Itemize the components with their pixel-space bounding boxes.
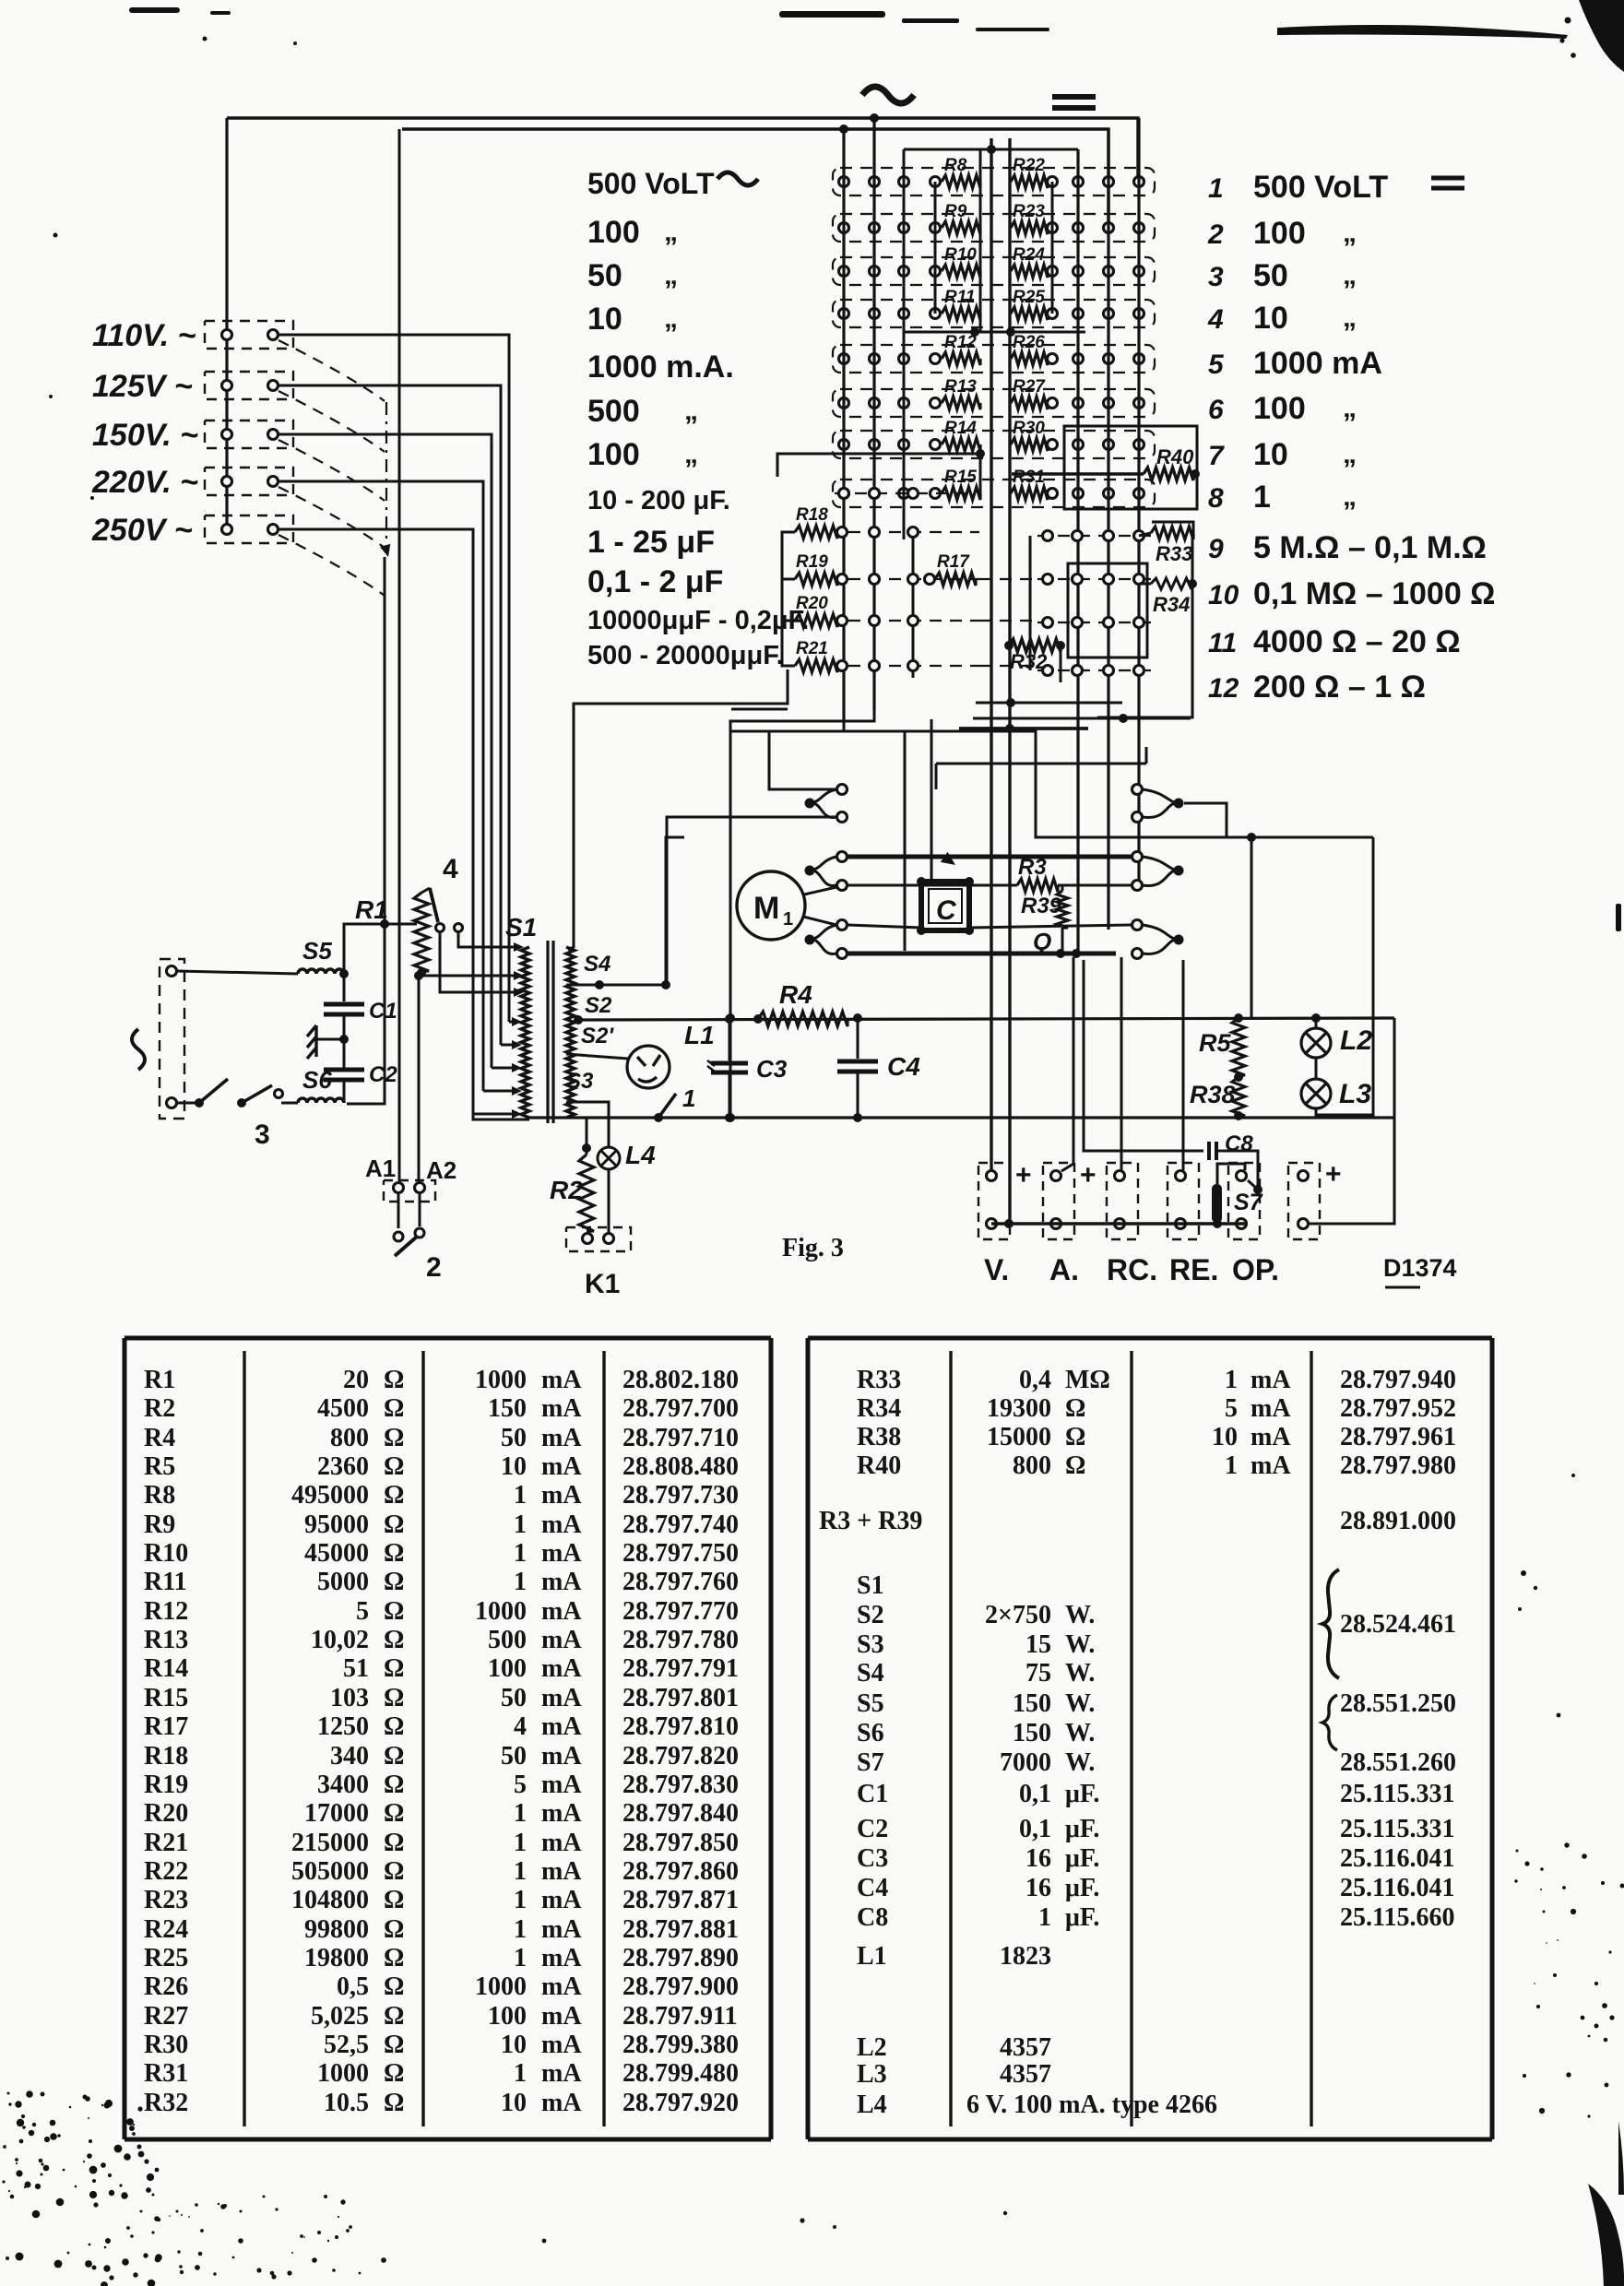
svg-text:28.797.840: 28.797.840 xyxy=(622,1799,739,1828)
svg-text:1: 1 xyxy=(1253,480,1271,515)
resistor R22 xyxy=(1011,175,1048,188)
svg-text:S3: S3 xyxy=(857,1630,884,1659)
resistor R24 xyxy=(1011,265,1048,278)
svg-text:10: 10 xyxy=(1212,1423,1238,1451)
svg-text:A1: A1 xyxy=(365,1155,396,1182)
wire selector dashed link 3 xyxy=(279,440,385,501)
svg-text:R34: R34 xyxy=(857,1394,901,1423)
svg-text:Ω: Ω xyxy=(1065,1394,1085,1423)
svg-text:1: 1 xyxy=(1225,1366,1238,1394)
svg-text:16: 16 xyxy=(1025,1844,1051,1873)
svg-text:50: 50 xyxy=(501,1424,527,1452)
svg-text:S2: S2 xyxy=(585,993,612,1018)
table frame left xyxy=(124,1338,771,2139)
wire collector B xyxy=(843,721,846,731)
svg-text:mA: mA xyxy=(541,1799,582,1828)
svg-text:„: „ xyxy=(664,260,678,290)
svg-text:15: 15 xyxy=(1025,1630,1051,1659)
svg-text:5: 5 xyxy=(356,1597,369,1626)
wire contact row 1034 heavy xyxy=(848,952,1116,956)
wire matrix column C xyxy=(903,149,906,539)
svg-text:W.: W. xyxy=(1065,1719,1095,1747)
svg-text:50: 50 xyxy=(501,1742,527,1771)
svg-text:Ω: Ω xyxy=(384,1394,404,1423)
svg-text:R5: R5 xyxy=(1199,1029,1231,1057)
svg-text:10.5: 10.5 xyxy=(324,2089,369,2117)
svg-text:Ω: Ω xyxy=(384,2002,404,2031)
svg-text:Ω: Ω xyxy=(384,1539,404,1568)
resistor R25 xyxy=(1011,307,1048,320)
svg-text:1: 1 xyxy=(514,1915,527,1944)
svg-text:28.797.760: 28.797.760 xyxy=(622,1568,739,1596)
switch row 2 xyxy=(833,214,1155,242)
wire block top xyxy=(730,731,1373,837)
svg-text:R14: R14 xyxy=(144,1654,188,1683)
svg-text:R9: R9 xyxy=(144,1510,175,1539)
svg-text:10000μμF - 0,2μF.: 10000μμF - 0,2μF. xyxy=(587,606,809,635)
resistor R8 xyxy=(931,177,941,187)
svg-text:R1: R1 xyxy=(355,895,388,924)
svg-text:Fig. 3: Fig. 3 xyxy=(782,1234,844,1262)
svg-text:500: 500 xyxy=(488,1626,527,1654)
svg-text:„: „ xyxy=(1343,481,1357,512)
switch row R19 xyxy=(848,578,979,580)
svg-text:mA: mA xyxy=(541,1829,582,1857)
svg-text:28.797.881: 28.797.881 xyxy=(622,1915,739,1944)
wire collector G heavy xyxy=(959,727,1088,730)
resistor R27 xyxy=(1011,397,1048,409)
svg-text:28.797.860: 28.797.860 xyxy=(622,1857,739,1886)
svg-text:Ω: Ω xyxy=(384,1684,404,1712)
wire collector A xyxy=(730,710,874,1118)
svg-text:L3: L3 xyxy=(1339,1079,1371,1109)
node S5 out xyxy=(339,969,349,978)
svg-text:Ω: Ω xyxy=(384,1944,404,1972)
svg-text:1: 1 xyxy=(514,1799,527,1828)
svg-text:C4: C4 xyxy=(887,1052,920,1081)
switch contact pair right xyxy=(1174,866,1184,876)
svg-text:10,02: 10,02 xyxy=(311,1626,369,1654)
svg-text:S4: S4 xyxy=(584,952,610,977)
resistor R23 xyxy=(1011,221,1048,234)
table brace small xyxy=(1322,1695,1337,1750)
svg-text:9: 9 xyxy=(1208,534,1224,564)
svg-text:2: 2 xyxy=(1207,219,1224,250)
svg-text:215000: 215000 xyxy=(291,1829,369,1857)
inductor S7 xyxy=(1212,1184,1222,1223)
svg-text:340: 340 xyxy=(330,1742,369,1771)
svg-text:Ω: Ω xyxy=(384,1742,404,1771)
svg-text:Ω: Ω xyxy=(384,2031,404,2059)
svg-text:R8: R8 xyxy=(144,1481,175,1510)
svg-text:10: 10 xyxy=(1253,437,1288,472)
svg-text:Ω: Ω xyxy=(384,1915,404,1944)
switch 2 xyxy=(397,1193,400,1228)
svg-text:28.799.480: 28.799.480 xyxy=(622,2059,739,2088)
wire A link xyxy=(1061,957,1073,1171)
switch 3 xyxy=(177,1102,199,1105)
svg-text:S1: S1 xyxy=(505,913,537,942)
svg-text:mA: mA xyxy=(541,1886,582,1914)
wire tap 3 to transformer xyxy=(279,434,492,1068)
svg-text:150V. ~: 150V. ~ xyxy=(92,418,198,453)
svg-text:R24: R24 xyxy=(144,1915,188,1944)
svg-text:R27: R27 xyxy=(144,2002,188,2031)
svg-text:W.: W. xyxy=(1065,1601,1095,1629)
svg-text:R11: R11 xyxy=(944,288,975,307)
svg-text:19300: 19300 xyxy=(987,1394,1051,1423)
svg-text:500 VoLT: 500 VoLT xyxy=(1253,170,1388,205)
svg-text:C1: C1 xyxy=(369,999,397,1024)
svg-text:D1374: D1374 xyxy=(1383,1254,1457,1282)
svg-text:R14: R14 xyxy=(944,419,977,438)
svg-text:25.115.660: 25.115.660 xyxy=(1340,1903,1454,1932)
svg-text:28.797.830: 28.797.830 xyxy=(622,1771,739,1799)
resistor R13 xyxy=(931,398,941,409)
resistor R2 xyxy=(582,1143,591,1153)
label DC range list xyxy=(1207,170,1495,705)
switch row R20 xyxy=(848,620,979,622)
svg-text:1000: 1000 xyxy=(317,2059,369,2088)
svg-text:μF.: μF. xyxy=(1065,1903,1099,1932)
wire matrix column D xyxy=(1076,149,1079,957)
svg-text:28.797.730: 28.797.730 xyxy=(622,1481,739,1510)
svg-text:100: 100 xyxy=(1253,216,1306,251)
svg-text:S7: S7 xyxy=(857,1748,884,1777)
svg-text:R9: R9 xyxy=(944,202,967,221)
resistor R33 xyxy=(1151,527,1193,539)
svg-text:103: 103 xyxy=(330,1684,369,1712)
svg-text:R22: R22 xyxy=(1013,156,1045,175)
wire terminal bottom bus xyxy=(991,1222,1245,1226)
svg-text:1 - 25 μF: 1 - 25 μF xyxy=(587,525,715,560)
svg-text:11: 11 xyxy=(1208,628,1237,658)
svg-text:28.797.920: 28.797.920 xyxy=(622,2089,739,2117)
svg-text:mA: mA xyxy=(541,1712,582,1741)
svg-text:W.: W. xyxy=(1065,1689,1095,1718)
svg-text:C8: C8 xyxy=(857,1903,888,1932)
svg-text:R19: R19 xyxy=(144,1771,188,1799)
DC symbol xyxy=(1052,97,1096,108)
svg-text:R32: R32 xyxy=(144,2089,188,2117)
svg-text:28.797.850: 28.797.850 xyxy=(622,1829,739,1857)
terminal 220V. tap xyxy=(205,468,293,495)
terminal 150V. tap xyxy=(205,420,293,448)
svg-text:1: 1 xyxy=(1038,1903,1051,1932)
svg-text:28.524.461: 28.524.461 xyxy=(1340,1610,1456,1639)
svg-text:6 V. 100 mA. type 4266: 6 V. 100 mA. type 4266 xyxy=(966,2091,1217,2119)
wire main bus bottom xyxy=(529,1116,1394,1119)
svg-text:25.116.041: 25.116.041 xyxy=(1340,1844,1454,1873)
wire matrix right res bus xyxy=(1051,182,1054,314)
svg-text:8: 8 xyxy=(1208,483,1224,514)
wire R5 riser xyxy=(1251,837,1253,1018)
svg-text:50: 50 xyxy=(501,1684,527,1712)
svg-text:0,1: 0,1 xyxy=(1019,1780,1051,1808)
svg-text:μF.: μF. xyxy=(1065,1780,1099,1808)
wire R33 top link xyxy=(1152,522,1193,533)
meter M1 xyxy=(737,871,805,940)
svg-text:Ω: Ω xyxy=(384,1481,404,1510)
svg-text:mA: mA xyxy=(541,1481,582,1510)
switch contact pair left xyxy=(805,935,815,945)
svg-text:0,1: 0,1 xyxy=(1019,1815,1051,1843)
svg-text:1: 1 xyxy=(514,1568,527,1596)
wire selector common dash-dot xyxy=(385,402,387,550)
resistor R34 xyxy=(1151,578,1191,589)
terminal 110V. tap xyxy=(205,321,293,349)
svg-text:4: 4 xyxy=(443,854,458,884)
svg-text:10: 10 xyxy=(1208,580,1239,610)
switch row 4 xyxy=(833,300,1155,327)
svg-text:R26: R26 xyxy=(1013,333,1045,352)
wire ladder left bus xyxy=(782,532,795,666)
svg-text:28.802.180: 28.802.180 xyxy=(622,1366,739,1394)
switch row 6 xyxy=(833,389,1155,417)
svg-text:1: 1 xyxy=(514,1539,527,1568)
svg-text:L1: L1 xyxy=(684,1021,715,1049)
svg-text:„: „ xyxy=(684,439,698,469)
svg-text:15000: 15000 xyxy=(987,1423,1051,1451)
svg-text:28.797.740: 28.797.740 xyxy=(622,1510,739,1539)
svg-text:R20: R20 xyxy=(144,1799,188,1828)
svg-text:S3: S3 xyxy=(566,1069,594,1094)
svg-text:Ω: Ω xyxy=(384,1857,404,1886)
svg-text:L4: L4 xyxy=(625,1141,656,1169)
svg-text:C8: C8 xyxy=(1225,1131,1253,1156)
svg-text:28.797.961: 28.797.961 xyxy=(1340,1423,1456,1451)
terminal 250V tap xyxy=(205,515,293,543)
terminal A1 A2 xyxy=(384,1180,435,1202)
svg-text:mA: mA xyxy=(541,1915,582,1944)
resistor R40 xyxy=(1064,426,1197,509)
wire S5 to R1 xyxy=(344,924,417,974)
svg-text:+: + xyxy=(1080,1160,1096,1190)
resistor R14 xyxy=(931,440,941,450)
node selector arrow xyxy=(380,544,390,557)
svg-text:μF.: μF. xyxy=(1065,1815,1099,1843)
svg-text:2×750: 2×750 xyxy=(985,1601,1051,1629)
wire S6 to R1 riser xyxy=(347,557,385,1104)
switch row 3 xyxy=(833,257,1155,285)
svg-text:mA: mA xyxy=(541,1539,582,1568)
wire matrix connector top xyxy=(904,148,1078,151)
svg-text:R33: R33 xyxy=(857,1366,901,1394)
svg-text:mA: mA xyxy=(1251,1366,1291,1394)
svg-text:R30: R30 xyxy=(1013,419,1045,438)
wire matrix left res bus xyxy=(934,182,937,314)
svg-text:104800: 104800 xyxy=(291,1886,369,1914)
wire RC drop xyxy=(1120,957,1123,1170)
AC symbol xyxy=(862,87,914,103)
svg-text:10: 10 xyxy=(501,2089,527,2117)
svg-text:+: + xyxy=(1015,1160,1032,1190)
svg-text:500 - 20000μμF.: 500 - 20000μμF. xyxy=(587,641,784,670)
switch row center 4 xyxy=(1037,669,1153,671)
svg-text:L2: L2 xyxy=(1340,1025,1372,1056)
svg-text:5: 5 xyxy=(514,1771,527,1799)
switch row 5 xyxy=(833,345,1155,373)
svg-text:28.551.260: 28.551.260 xyxy=(1340,1748,1456,1777)
svg-text:0,1 - 2 μF: 0,1 - 2 μF xyxy=(587,564,723,599)
svg-text:MΩ: MΩ xyxy=(1065,1366,1110,1394)
svg-text:A2: A2 xyxy=(426,1156,456,1184)
svg-text:Ω: Ω xyxy=(384,1886,404,1914)
svg-text:L1: L1 xyxy=(857,1942,887,1971)
svg-text:Ω: Ω xyxy=(384,1654,404,1683)
switch contact pair left xyxy=(805,866,815,876)
table brace big xyxy=(1322,1569,1339,1678)
svg-text:R25: R25 xyxy=(1013,288,1045,307)
svg-text:3: 3 xyxy=(255,1119,270,1150)
svg-text:Ω: Ω xyxy=(1065,1451,1085,1480)
svg-text:Ω: Ω xyxy=(384,1568,404,1596)
capacitor C3 xyxy=(729,1019,731,1060)
svg-text:„: „ xyxy=(664,217,678,247)
svg-text:Ω: Ω xyxy=(384,1452,404,1481)
svg-text:1: 1 xyxy=(783,909,793,930)
svg-text:3400: 3400 xyxy=(317,1771,369,1799)
wire R15 link xyxy=(777,454,980,493)
svg-text:R5: R5 xyxy=(144,1452,175,1481)
svg-text:125V ~: 125V ~ xyxy=(92,369,193,404)
svg-text:4357: 4357 xyxy=(1000,2033,1051,2062)
svg-text:51: 51 xyxy=(343,1654,369,1683)
svg-text:Ω: Ω xyxy=(384,1972,404,2001)
terminal 125V tap xyxy=(205,372,293,399)
svg-text:„: „ xyxy=(1343,218,1357,248)
svg-text:R15: R15 xyxy=(944,468,977,487)
wire big box left xyxy=(729,731,732,1118)
svg-text:5: 5 xyxy=(1225,1394,1238,1423)
label AC range list xyxy=(587,167,809,670)
svg-text:0,1 MΩ – 1000 Ω: 0,1 MΩ – 1000 Ω xyxy=(1253,576,1495,611)
svg-text:12: 12 xyxy=(1208,673,1239,704)
capacitor C1 xyxy=(343,974,346,1001)
table frame right xyxy=(808,1338,1492,2139)
svg-text:10: 10 xyxy=(501,2031,527,2059)
wire selector dashed link 1 xyxy=(279,340,385,401)
svg-text:1: 1 xyxy=(514,1510,527,1539)
svg-text:28.797.791: 28.797.791 xyxy=(622,1654,739,1683)
resistor R9 xyxy=(931,223,941,233)
switch column H xyxy=(912,532,915,678)
switch contact pair right xyxy=(1174,799,1184,809)
svg-text:2: 2 xyxy=(426,1252,442,1283)
terminal V xyxy=(978,1163,1010,1239)
svg-text:mA: mA xyxy=(541,1626,582,1654)
switch row center 1 xyxy=(1037,535,1153,537)
svg-text:10: 10 xyxy=(587,302,622,337)
svg-text:R12: R12 xyxy=(144,1597,188,1626)
table right rows xyxy=(819,1366,1456,2119)
svg-text:28.797.980: 28.797.980 xyxy=(1340,1451,1456,1480)
svg-text:28.797.700: 28.797.700 xyxy=(622,1394,739,1423)
svg-text:52,5: 52,5 xyxy=(324,2031,369,2059)
svg-text:28.797.801: 28.797.801 xyxy=(622,1684,739,1712)
svg-text:mA: mA xyxy=(541,1654,582,1683)
wire collector H xyxy=(973,717,1191,720)
svg-text:4357: 4357 xyxy=(1000,2060,1051,2089)
wire selector dashed link 5 xyxy=(279,535,385,596)
svg-text:5,025: 5,025 xyxy=(311,2002,369,2031)
wire collector F xyxy=(976,702,1122,705)
switch row 8 xyxy=(833,480,1155,507)
switch contact pair right xyxy=(1174,935,1184,945)
wire matrix inner v1 xyxy=(979,149,982,332)
wire matrix column E xyxy=(1107,129,1109,930)
svg-text:R18: R18 xyxy=(796,505,828,525)
svg-text:S5: S5 xyxy=(302,937,332,965)
svg-text:50: 50 xyxy=(587,258,622,293)
wire right contact link xyxy=(1184,803,1227,837)
svg-text:28.797.810: 28.797.810 xyxy=(622,1712,739,1741)
svg-text:7: 7 xyxy=(1208,441,1225,471)
svg-text:28.797.900: 28.797.900 xyxy=(622,1972,739,2001)
resistor R10 xyxy=(931,267,941,277)
svg-text:6: 6 xyxy=(1208,395,1224,425)
svg-text:R8: R8 xyxy=(944,156,967,175)
svg-text:„: „ xyxy=(684,396,698,426)
switch column G xyxy=(873,493,876,710)
wire top supply bus 1 xyxy=(227,118,1138,182)
svg-text:mA: mA xyxy=(541,1771,582,1799)
svg-text:mA: mA xyxy=(541,1366,582,1394)
svg-text:0,5: 0,5 xyxy=(337,1972,369,2001)
svg-text:25.115.331: 25.115.331 xyxy=(1340,1815,1454,1843)
wire center line 2 xyxy=(1008,138,1011,1224)
svg-text:mA: mA xyxy=(1251,1423,1291,1451)
lamp L4 xyxy=(598,1147,620,1169)
wire mains selector bus xyxy=(225,118,228,529)
svg-text:R26: R26 xyxy=(144,1972,188,2001)
svg-text:1: 1 xyxy=(514,1481,527,1510)
svg-text:28.797.871: 28.797.871 xyxy=(622,1886,739,1914)
wire matrix column F xyxy=(1137,118,1140,887)
wire contact row 929 heavy xyxy=(848,855,1132,859)
svg-text:C3: C3 xyxy=(756,1055,788,1083)
svg-text:800: 800 xyxy=(1013,1451,1051,1480)
terminal aux right xyxy=(1288,1163,1320,1239)
svg-text:S4: S4 xyxy=(857,1659,884,1688)
wire tap 5 to transformer xyxy=(279,529,473,1114)
svg-text:95000: 95000 xyxy=(304,1510,369,1539)
svg-text:S2': S2' xyxy=(581,1024,614,1048)
svg-text:28.797.940: 28.797.940 xyxy=(1340,1366,1456,1394)
wire center block step xyxy=(1029,536,1032,670)
svg-text:220V. ~: 220V. ~ xyxy=(91,465,198,500)
svg-text:100: 100 xyxy=(1253,391,1306,426)
svg-text:800: 800 xyxy=(330,1424,369,1452)
svg-text:R33: R33 xyxy=(1156,542,1192,565)
svg-text:28.797.770: 28.797.770 xyxy=(622,1597,739,1626)
svg-text:L4: L4 xyxy=(857,2091,887,2119)
capacitor C8 xyxy=(1084,960,1203,1151)
switch row 1 xyxy=(833,168,1155,195)
svg-text:C3: C3 xyxy=(857,1844,888,1873)
svg-text:28.797.820: 28.797.820 xyxy=(622,1742,739,1771)
wire contact row 886 xyxy=(667,817,836,985)
svg-text:200 Ω – 1 Ω: 200 Ω – 1 Ω xyxy=(1253,669,1426,705)
svg-text:R21: R21 xyxy=(796,639,828,658)
svg-text:R20: R20 xyxy=(796,594,828,613)
wire collector E xyxy=(936,763,1146,765)
svg-text:A.: A. xyxy=(1049,1253,1079,1286)
svg-text:1000: 1000 xyxy=(475,1972,527,2001)
svg-text:R21: R21 xyxy=(144,1829,188,1857)
resistor R15 xyxy=(931,489,941,499)
svg-text:4500: 4500 xyxy=(317,1394,369,1423)
